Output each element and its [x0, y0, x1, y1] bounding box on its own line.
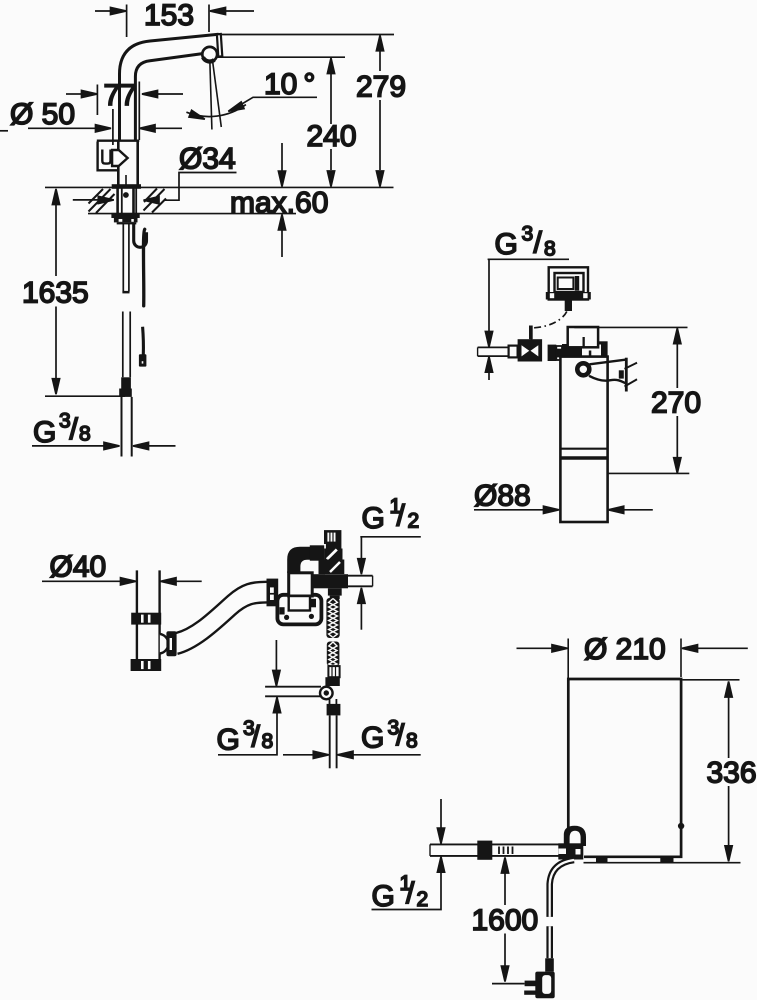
- column side port: [160, 631, 177, 656]
- shank center dot: [123, 192, 129, 198]
- boiler tank body: [568, 679, 681, 857]
- filter head body: [557, 341, 608, 359]
- dim diam 34 arrows: [73, 196, 159, 204]
- solenoid valve body: [518, 326, 543, 362]
- power cord upper: [550, 860, 574, 917]
- svg-text:Ø34: Ø34: [179, 143, 236, 176]
- port ball fitting: [320, 687, 336, 704]
- dim 77: [66, 82, 183, 141]
- pump screw dots: [284, 615, 289, 620]
- label G 1/2 top: [362, 495, 420, 535]
- knurled cap: [324, 530, 341, 544]
- tube nut wide: [119, 389, 132, 397]
- spray axis line vertical: [210, 63, 212, 130]
- svg-text:Ø40: Ø40: [50, 551, 107, 584]
- svg-text:279: 279: [356, 71, 406, 104]
- hose ribbed sleeve: [328, 666, 339, 677]
- check valve body: [324, 549, 342, 560]
- extension line outlet level: [217, 56, 345, 58]
- pump left notch: [279, 607, 284, 614]
- dim 240: [327, 58, 334, 187]
- tail tube G38: [330, 715, 337, 768]
- svg-text:77: 77: [104, 79, 137, 112]
- counter hatching right: [144, 189, 167, 213]
- svg-text:8: 8: [544, 238, 556, 261]
- soap dispenser column: [137, 570, 160, 659]
- elbow into tank: [558, 826, 586, 860]
- pull-out hose descender: [143, 229, 144, 305]
- elbow pipe: [287, 547, 310, 573]
- svg-text:Ø88: Ø88: [474, 480, 531, 513]
- label G 3/8 bottom: [33, 409, 91, 449]
- inlet pipe: [478, 347, 509, 356]
- controller display unit: [546, 267, 591, 311]
- column collar lower: [131, 659, 162, 671]
- hose hex nut: [325, 677, 339, 686]
- dim diam 210 arrows: [517, 639, 748, 679]
- side port tube: [265, 687, 321, 697]
- dim 153 line: [95, 5, 254, 38]
- wall bracket ring: [577, 363, 589, 375]
- pump inlet fitting: [267, 579, 279, 607]
- pipe nut: [477, 841, 492, 860]
- faucet spout outer edge: [120, 34, 219, 141]
- plug sleeve: [545, 958, 554, 971]
- wall bracket arm: [589, 358, 637, 392]
- tee left nut: [310, 545, 324, 560]
- lever handle: [98, 142, 128, 171]
- inlet pipe G12: [430, 844, 562, 856]
- svg-text:8: 8: [79, 423, 91, 446]
- spray axis line tilted 10 deg: [213, 62, 222, 127]
- pump inner box: [289, 596, 310, 611]
- fittings right of valve: [548, 344, 571, 361]
- dim max60 arrows: [278, 143, 285, 257]
- svg-text:240: 240: [307, 120, 357, 153]
- svg-text:3: 3: [522, 223, 534, 246]
- dim G12 arrows at pipe: [372, 799, 445, 910]
- svg-text:153: 153: [144, 0, 194, 32]
- svg-text:G: G: [495, 228, 518, 261]
- faucet spout inner edge: [135, 54, 202, 142]
- lower fitting: [327, 704, 341, 716]
- pipe ring fitting: [509, 346, 518, 358]
- svg-text:/: /: [396, 719, 405, 752]
- dim 336: [725, 682, 732, 862]
- faucet body column: [118, 142, 137, 187]
- valve neck: [326, 544, 342, 549]
- svg-text:/: /: [534, 227, 543, 260]
- floor line: [584, 862, 741, 864]
- connection tube G38: [122, 397, 132, 457]
- dim port arrows vertical: [218, 640, 281, 755]
- supply tube lower segment: [123, 312, 130, 378]
- svg-text:Ø 50: Ø 50: [10, 98, 75, 131]
- braided hose segment 2: [327, 642, 340, 667]
- svg-text:Ø 210: Ø 210: [584, 633, 666, 666]
- svg-text:/: /: [70, 413, 79, 446]
- svg-text:8: 8: [406, 730, 418, 753]
- G38 leader: [488, 258, 569, 260]
- faucet body top line: [97, 139, 140, 141]
- svg-text:/: /: [406, 877, 415, 910]
- svg-text:/: /: [397, 500, 406, 533]
- hose end fitting: [139, 354, 147, 366]
- counter hatching left: [89, 189, 115, 213]
- plug prongs: [525, 981, 536, 987]
- tee body: [313, 574, 348, 588]
- column collar upper: [131, 613, 161, 625]
- control cable dash-dot: [531, 312, 566, 340]
- svg-text:2: 2: [417, 888, 429, 911]
- dim 270: [608, 328, 690, 473]
- locking nut below counter: [111, 213, 139, 218]
- angle arc with arrows: [186, 102, 246, 123]
- G38 arrows at pipe: [485, 332, 492, 381]
- dim diam 40 arrows: [42, 578, 202, 585]
- tee right port G12: [348, 576, 373, 587]
- svg-text:G: G: [362, 502, 385, 535]
- filter head top box: [568, 327, 598, 347]
- label G 3/8 right: [361, 717, 418, 755]
- tank feet: [596, 858, 608, 863]
- svg-text:336: 336: [707, 757, 757, 790]
- svg-text:10 °: 10 °: [264, 68, 315, 101]
- pull-out hose loop: [134, 224, 147, 248]
- tube nut: [121, 377, 131, 388]
- svg-text:1635: 1635: [22, 277, 89, 310]
- valve lower nut: [322, 560, 344, 575]
- spout ball joint: [202, 47, 217, 62]
- filter cartridge: [560, 357, 607, 522]
- below tee blocks: [328, 588, 342, 595]
- dim diam 88 arrows: [474, 506, 653, 513]
- dim 1635: [45, 189, 125, 396]
- supply tube upper segment: [122, 224, 129, 294]
- label G 3/8 top: [495, 223, 556, 262]
- pump housing: [277, 595, 321, 625]
- G38 dim arrows bottom: [283, 751, 421, 758]
- svg-text:/: /: [252, 721, 261, 754]
- extension line 270 top: [574, 326, 687, 328]
- svg-text:G: G: [217, 724, 240, 757]
- dim diam 50 arrows: [0, 109, 182, 145]
- svg-text:G: G: [361, 722, 384, 755]
- nut collar: [114, 218, 138, 222]
- svg-text:G: G: [33, 416, 56, 449]
- dim diam 34 leader: [164, 173, 237, 201]
- extension line spout top: [220, 34, 394, 36]
- dim 1600: [492, 858, 525, 984]
- svg-text:2: 2: [408, 510, 420, 533]
- svg-text:1600: 1600: [472, 904, 539, 937]
- mounting shank: [118, 189, 137, 214]
- G12 leader and arrows: [358, 537, 421, 630]
- leader for 10 degrees: [231, 97, 317, 110]
- thermostat dot right edge: [678, 823, 684, 829]
- plug body: [535, 972, 554, 999]
- pump clip: [310, 599, 316, 608]
- braided hose segment 1: [326, 598, 339, 638]
- svg-text:8: 8: [262, 730, 274, 753]
- counter top line: [45, 186, 394, 188]
- connecting hose: [176, 582, 267, 654]
- pump upper box: [289, 573, 313, 596]
- extension line 336 top: [683, 679, 740, 681]
- dim 279: [376, 35, 383, 186]
- pull-out hose lower segment: [141, 327, 145, 355]
- G38 dim arrows: [32, 442, 176, 449]
- pipe thread ticks: [499, 847, 513, 855]
- counter bottom line: [88, 213, 296, 215]
- label G 1/2 boiler: [372, 872, 429, 913]
- svg-text:max.60: max.60: [230, 187, 328, 220]
- base plate: [112, 184, 141, 189]
- power cord lower: [546, 926, 553, 958]
- label G 3/8 left: [217, 717, 274, 757]
- spout end cap: [217, 34, 222, 57]
- svg-text:G: G: [372, 880, 395, 913]
- svg-text:270: 270: [651, 387, 701, 420]
